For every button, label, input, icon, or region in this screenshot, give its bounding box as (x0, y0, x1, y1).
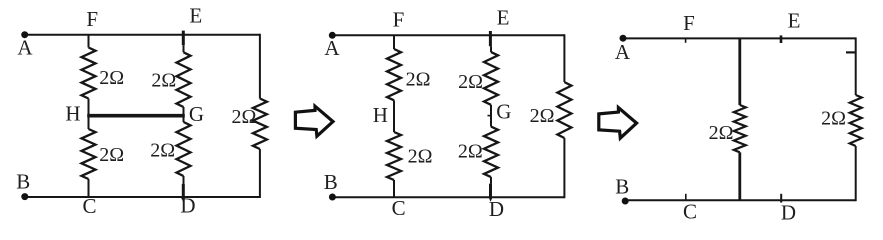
svg-text:C: C (683, 200, 697, 224)
resistor 2&#937; right branch (circuit 3) (850, 95, 862, 146)
resistor 2&#937; right branch (circuit 1) (253, 99, 267, 150)
wire right branch bottom (circuit 1) (259, 149, 261, 198)
wire E stub (circuit 2) (489, 31, 492, 46)
wire E column bottom stub (circuit 2) (490, 177, 492, 184)
svg-text:E: E (497, 5, 510, 29)
wire H segment (circuit 1) (88, 99, 90, 130)
svg-text:A: A (324, 36, 340, 60)
wire F stub (circuit 1) (88, 35, 90, 48)
wire middle column bottom (circuit 3) (738, 152, 741, 200)
node D tick (circuit 3) (780, 194, 782, 203)
svg-text:2Ω: 2Ω (231, 106, 256, 128)
svg-text:D: D (489, 197, 504, 221)
wire right branch top (circuit 2) (563, 34, 565, 82)
arrow step 1 to 2 (295, 106, 333, 136)
resistor 2&#937; right branch (circuit 2) (557, 82, 571, 138)
resistor 2&#937; G-D (circuit 2) (484, 127, 498, 178)
svg-text:E: E (788, 8, 801, 32)
svg-text:2Ω: 2Ω (709, 122, 734, 144)
wire G segment (circuit 2) (490, 105, 492, 127)
wire E column bottom stub (circuit 1) (183, 176, 185, 184)
svg-text:A: A (615, 40, 631, 64)
svg-text:E: E (189, 4, 202, 28)
svg-text:C: C (392, 196, 406, 220)
resistor 2&#937; E-G (circuit 2) (484, 52, 498, 105)
resistor 2&#937; H-C (circuit 2) (387, 132, 401, 180)
node C tick (circuit 3) (685, 194, 687, 200)
svg-text:G: G (189, 102, 204, 126)
svg-text:G: G (496, 100, 511, 124)
wire right branch top (circuit 3) (855, 37, 857, 95)
wire F stub (circuit 2) (393, 35, 395, 49)
node B (circuit 1) (21, 193, 28, 200)
wire F column bottom (circuit 2) (393, 180, 395, 197)
resistor 2&#937; F-H (circuit 2) (387, 49, 401, 100)
node A (circuit 2) (329, 32, 336, 39)
wire B-C-D bottom (circuit 2) (333, 196, 565, 198)
svg-text:2Ω: 2Ω (821, 108, 846, 130)
svg-text:F: F (393, 7, 405, 31)
wire A-F-E top (circuit 2) (333, 34, 565, 36)
svg-text:D: D (781, 200, 796, 224)
svg-text:C: C (82, 194, 96, 218)
junction tick right branch (circuit 3) (846, 51, 856, 53)
node B (circuit 2) (329, 194, 336, 201)
svg-text:H: H (373, 103, 388, 127)
svg-text:B: B (16, 170, 30, 194)
node F tick (circuit 3) (685, 39, 687, 43)
svg-text:A: A (17, 36, 33, 60)
svg-text:B: B (615, 174, 629, 198)
node A (circuit 1) (21, 31, 28, 38)
node B (circuit 3) (622, 198, 629, 205)
wire right branch bottom (circuit 2) (563, 138, 565, 198)
resistor 2&#937; middle (circuit 3) (734, 105, 746, 152)
wire A-F-E top (circuit 3) (623, 37, 856, 39)
svg-text:2Ω: 2Ω (150, 140, 175, 162)
wire F column bottom (circuit 1) (88, 179, 90, 197)
wire B-C-D bottom (circuit 3) (624, 199, 856, 201)
svg-text:2Ω: 2Ω (99, 144, 124, 166)
wire right branch bottom (circuit 3) (855, 146, 857, 201)
arrow step 2 to 3 (599, 108, 637, 139)
wire A-F-E top (circuit 1) (25, 34, 260, 36)
svg-text:F: F (86, 7, 98, 31)
wire right branch top (circuit 1) (259, 34, 261, 99)
resistor 2&#937; H-C (circuit 1) (82, 129, 96, 179)
svg-text:H: H (65, 101, 80, 125)
wire H-G (circuit 1) (87, 114, 185, 118)
node G tick (circuit 2) (488, 115, 492, 117)
svg-text:2Ω: 2Ω (530, 105, 555, 127)
svg-text:2Ω: 2Ω (458, 141, 483, 163)
svg-text:B: B (324, 170, 338, 194)
wire middle column top (circuit 3) (738, 38, 741, 105)
svg-text:2Ω: 2Ω (99, 67, 124, 89)
wire G segment (circuit 1) (183, 107, 185, 122)
svg-text:2Ω: 2Ω (408, 146, 433, 168)
svg-text:2Ω: 2Ω (151, 70, 176, 92)
resistor 2&#937; G-D (circuit 1) (177, 122, 191, 176)
resistor 2&#937; F-H (circuit 1) (82, 48, 96, 99)
svg-text:2Ω: 2Ω (458, 71, 483, 93)
wire E stub (circuit 1) (182, 31, 185, 46)
node E tick (circuit 3) (780, 35, 783, 43)
svg-text:2Ω: 2Ω (406, 69, 431, 91)
wire H segment (circuit 2) (393, 100, 395, 132)
resistor 2&#937; E-G (circuit 1) (177, 52, 191, 107)
node A (circuit 3) (620, 35, 627, 42)
svg-text:F: F (683, 11, 695, 35)
wire B-C-D bottom (circuit 1) (25, 196, 260, 198)
